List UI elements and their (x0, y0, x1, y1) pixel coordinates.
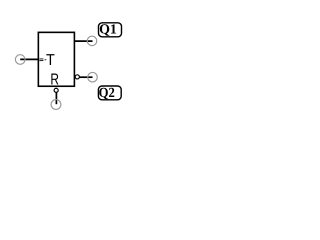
svg-text:T: T (46, 52, 55, 69)
svg-text:Q1: Q1 (99, 22, 117, 37)
svg-text:Q2: Q2 (99, 86, 115, 101)
svg-text:R: R (50, 72, 59, 89)
